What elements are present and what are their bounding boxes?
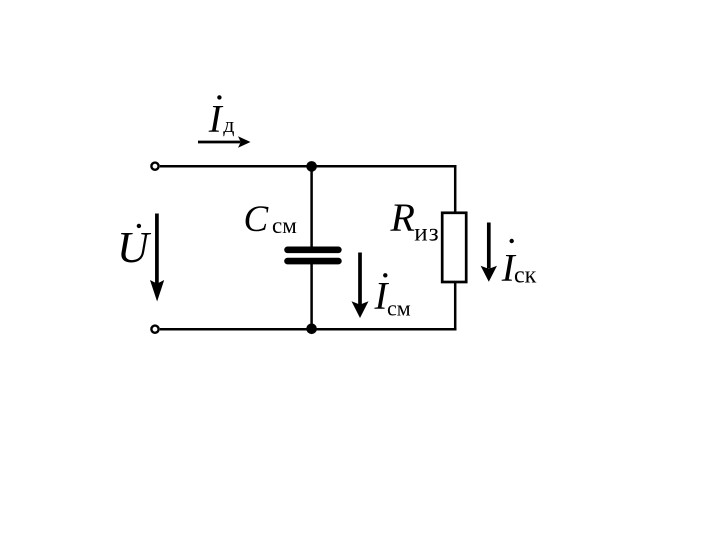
label I_ck with dot <box>501 239 537 290</box>
svg-text:I: I <box>208 98 224 141</box>
resistor R_iz body <box>442 213 466 282</box>
svg-text:ск: ск <box>514 263 537 289</box>
wire capacitor branch upper segment <box>310 166 313 248</box>
svg-text:см: см <box>387 296 411 321</box>
svg-text:U: U <box>117 223 152 272</box>
label R_iz <box>390 195 440 247</box>
wire capacitor branch lower segment <box>310 262 313 329</box>
svg-text:д: д <box>223 112 234 137</box>
label U with dot <box>117 223 152 272</box>
svg-text:см: см <box>272 213 297 238</box>
wire right branch upper segment <box>454 166 457 213</box>
wire top horizontal <box>160 165 457 168</box>
capacitor C_cm plates <box>288 250 339 261</box>
current arrow I_d (top, rightward) <box>198 136 251 148</box>
current arrow I_ck (right, downward) <box>481 223 497 282</box>
label I_d with dot <box>208 95 235 140</box>
terminal bottom-left <box>151 326 158 333</box>
current arrow I_cm (middle, downward) <box>352 253 369 319</box>
svg-text:C: C <box>244 199 270 240</box>
wire bottom horizontal <box>160 328 457 331</box>
voltage arrow U (left, downward) <box>150 214 164 302</box>
svg-text:R: R <box>390 195 415 240</box>
svg-text:из: из <box>414 220 440 247</box>
wire right branch lower segment <box>454 282 457 330</box>
label C_cm <box>244 199 298 240</box>
label I_cm with dot <box>374 273 411 321</box>
node junction bottom <box>306 324 317 335</box>
node junction top <box>306 161 317 172</box>
terminal top-left <box>151 163 158 170</box>
